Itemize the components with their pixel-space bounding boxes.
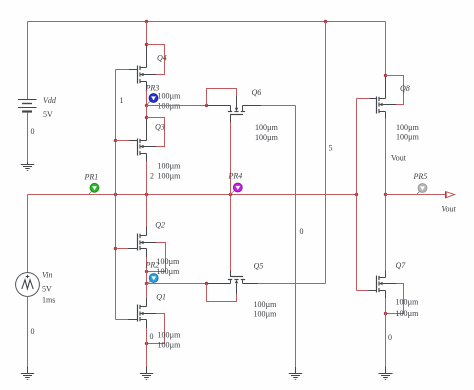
wire battery bottom	[27, 113, 29, 163]
svg-text:100µm: 100µm	[157, 267, 181, 276]
wire Q7 gate arm	[357, 290, 377, 292]
wire Vdd top rail	[28, 21, 386, 23]
transistor Q3 (PMOS)	[138, 139, 147, 156]
svg-text:Vout: Vout	[442, 205, 457, 214]
wire Q2 source down	[146, 249, 148, 284]
wire col1 to Q1	[146, 284, 148, 307]
wire Q4 body loop	[143, 45, 164, 75]
wire col3 output to Q7	[385, 195, 387, 278]
wire Q3 source to input net	[146, 154, 148, 195]
svg-text:Q6: Q6	[252, 88, 262, 97]
svg-text:Vin: Vin	[42, 271, 53, 280]
svg-text:0: 0	[150, 332, 154, 341]
svg-text:0: 0	[300, 227, 304, 236]
svg-text:Q7: Q7	[396, 261, 407, 270]
svg-text:Vdd: Vdd	[43, 96, 57, 105]
junction input/col1	[145, 193, 148, 196]
wire Q6 source to ground column	[243, 105, 296, 107]
wire col1 from rail to Q4	[146, 22, 148, 68]
wire output	[386, 194, 446, 196]
wire Q4 gate arm	[116, 69, 138, 71]
svg-text:2: 2	[150, 172, 154, 181]
wire Q7 source to ground	[385, 291, 387, 368]
junction input/PR4 column	[229, 193, 232, 196]
wire col1 input to Q2	[146, 195, 148, 236]
junction input/bus	[114, 193, 117, 196]
svg-text:0: 0	[31, 127, 35, 136]
probe PR2	[145, 261, 160, 284]
wire Q8 body loop	[383, 76, 404, 105]
ground (battery)	[21, 162, 34, 171]
wire battery top	[27, 22, 29, 100]
wire Vin top riser	[27, 195, 29, 273]
wire Q1 gate arm	[116, 319, 138, 321]
wire Vin bottom	[27, 296, 29, 367]
wire Q3 gate arm	[116, 140, 138, 142]
junction rail/col1	[145, 20, 148, 23]
junction Q7 source/body	[384, 312, 387, 315]
wire Q5 source to Vdd riser	[243, 283, 326, 285]
junction col1/Q5 branch	[145, 282, 148, 285]
wire Q7 body loop	[383, 284, 404, 314]
svg-text:100µm: 100µm	[396, 123, 420, 132]
junction Q3 drain/body loop	[145, 116, 148, 119]
svg-text:Q3: Q3	[155, 123, 165, 132]
transistor Q4 (PMOS)	[138, 66, 147, 84]
wire Q3 body loop	[143, 118, 164, 147]
wire Q5 body loop	[207, 284, 237, 302]
svg-text:1: 1	[120, 96, 124, 105]
svg-text:0: 0	[388, 333, 392, 342]
wire col1 node1 to Q3	[146, 106, 148, 141]
wire ground column (node 0)	[295, 106, 297, 368]
transistor Q8 (PMOS)	[377, 97, 386, 114]
transistor Q7 (NMOS)	[377, 276, 386, 293]
wire Vdd riser (node 5 col)	[325, 22, 327, 284]
svg-text:100µm: 100µm	[158, 162, 182, 171]
source Vin (sine)	[16, 273, 40, 297]
probe PR5	[413, 172, 428, 194]
svg-text:Q8: Q8	[400, 84, 410, 93]
svg-text:100µm: 100µm	[255, 133, 279, 142]
wire Q4 source down	[146, 82, 148, 106]
svg-text:1ms: 1ms	[42, 296, 55, 305]
wire input net (horizontal)	[28, 194, 357, 196]
svg-text:0: 0	[31, 327, 35, 336]
wire node 5 vertical (Q8/Q7 gates)	[356, 99, 358, 291]
svg-text:100µm: 100µm	[396, 309, 420, 318]
svg-text:5: 5	[329, 144, 333, 153]
svg-text:100µm: 100µm	[255, 123, 279, 132]
svg-text:100µm: 100µm	[396, 298, 420, 307]
junction Q1 source/body	[145, 342, 148, 345]
junction Q8 drain/body loop	[384, 74, 387, 77]
junction rail/Q5-source riser	[324, 20, 327, 23]
svg-text:Q1: Q1	[156, 293, 166, 302]
ground (Q6 column)	[289, 367, 302, 379]
junction Q5 drain/body loop	[205, 282, 208, 285]
junction Q6 drain/body loop	[205, 104, 208, 107]
wire node1 to Q6	[147, 105, 231, 107]
junction col1/node1 wire	[145, 104, 148, 107]
wire Q1 body loop	[143, 314, 164, 344]
wire PR4 column (Q6 gate to Q5 gate)	[230, 122, 232, 277]
svg-text:Vout: Vout	[391, 154, 407, 163]
svg-text:100µm: 100µm	[254, 300, 278, 309]
wire Q6 body loop	[207, 89, 237, 109]
svg-text:PR4: PR4	[228, 172, 243, 181]
transistor Q1 (NMOS)	[138, 305, 147, 322]
wire Q1 source to ground	[146, 320, 148, 368]
svg-text:5V: 5V	[43, 110, 53, 119]
svg-text:100µm: 100µm	[158, 92, 182, 101]
ground (Vin)	[21, 367, 34, 379]
svg-text:100µm: 100µm	[254, 310, 278, 319]
svg-text:100µm: 100µm	[396, 133, 420, 142]
svg-text:100µm: 100µm	[158, 172, 182, 181]
svg-text:5V: 5V	[42, 285, 52, 294]
wire gate bus (node 1)	[115, 70, 117, 320]
wire Q8 source to output	[385, 112, 387, 195]
svg-text:100µm: 100µm	[157, 257, 181, 266]
svg-text:Q4: Q4	[157, 54, 167, 63]
wire branch to Q5	[147, 283, 231, 285]
svg-text:PR1: PR1	[84, 173, 99, 182]
battery V1 Vdd	[18, 100, 37, 112]
junction Q2 body/source	[145, 270, 148, 273]
transistor Q5 (horizontal)	[228, 277, 245, 284]
svg-text:100µm: 100µm	[158, 341, 182, 350]
transistor Q6 (horizontal, diode body tie)	[228, 106, 245, 123]
probe PR4	[228, 172, 243, 194]
svg-text:Q5: Q5	[254, 262, 264, 271]
wire Q2 body loop	[143, 243, 165, 272]
junction bus/Q3 gate	[114, 139, 117, 142]
probe PR1	[84, 173, 99, 195]
junction Q4 drain/body loop	[145, 43, 148, 46]
svg-text:PR5: PR5	[413, 172, 428, 181]
junction output node	[384, 193, 387, 196]
ground (Q7)	[379, 367, 393, 379]
transistor Q2 (NMOS)	[138, 234, 147, 251]
junction bus/Q2 gate	[114, 247, 117, 250]
wire col3 rail to Q8	[385, 22, 387, 99]
wire Q8 gate arm	[357, 98, 377, 100]
junction input/node5	[355, 193, 358, 196]
wire Q2 gate arm	[116, 248, 138, 250]
probe PR3	[145, 84, 160, 104]
output connector arrow	[445, 191, 447, 198]
ground (Q1)	[140, 367, 153, 379]
svg-text:Q2: Q2	[155, 221, 165, 230]
svg-text:100µm: 100µm	[158, 331, 182, 340]
